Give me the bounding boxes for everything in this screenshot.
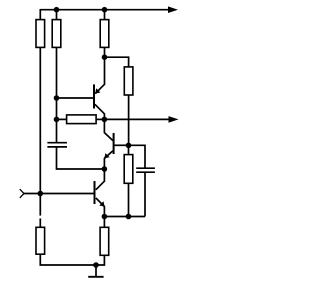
wire Q3 emitter — [96, 198, 105, 217]
node 57 — [102, 54, 108, 60]
resistor R6 — [124, 155, 133, 184]
transistor Q1 emitter arrow — [95, 88, 100, 93]
wire R7 bottom lead — [96, 255, 104, 265]
wire input to node — [24, 193, 40, 195]
node lower rail right — [126, 214, 132, 220]
arrow top rail — [168, 6, 178, 13]
wire Q3 base — [40, 193, 93, 195]
wire node to C2 — [129, 145, 146, 167]
wire R3 bottom lead — [104, 47, 106, 57]
wire R7 top lead — [103, 217, 105, 228]
arrow output — [169, 116, 179, 123]
wire node57 to R4 — [105, 57, 129, 67]
input terminal Y — [20, 189, 24, 198]
resistor R3 — [100, 20, 109, 48]
transistor Q2 bar — [113, 133, 115, 154]
wire R6 bottom lead — [40, 254, 96, 265]
resistor R2 — [52, 20, 61, 48]
wire Q3 collector — [96, 169, 105, 190]
resistor R1 — [36, 20, 45, 48]
capacitor C1 — [47, 143, 67, 147]
wire C1 bottom lead — [57, 147, 105, 169]
wire R6 top lead upper segment — [39, 194, 41, 216]
ground — [88, 276, 103, 278]
wire Q2 base — [114, 144, 128, 146]
wire Q1 base — [57, 97, 94, 99]
wire mid rail right lead — [96, 118, 104, 120]
wire R5 top lead — [128, 145, 130, 154]
wire R1 top lead — [39, 9, 41, 20]
node mid rail left — [54, 117, 60, 123]
wire Q1 emitter lead — [95, 57, 104, 93]
resistor R8 — [100, 227, 109, 255]
wire top rail — [40, 9, 169, 11]
node lower rail left — [102, 214, 108, 220]
wire mid rail left lead — [57, 118, 67, 120]
wire Q2 emitter — [104, 151, 112, 169]
wire R3 top lead — [104, 10, 106, 20]
node Q1 base — [54, 95, 60, 101]
wire R1 bottom lead down to input node — [39, 47, 41, 193]
transistor Q1 bar — [93, 84, 95, 108]
resistor R4 — [124, 67, 133, 95]
node mid rail right — [102, 117, 108, 123]
wire R5 bottom lead — [128, 183, 130, 216]
wire C2 bottom lead — [144, 172, 146, 216]
transistor Q2 emitter arrow — [104, 153, 109, 158]
node ground — [93, 262, 99, 268]
wire R2 top lead — [56, 10, 58, 20]
wire R6 top lead lower segment — [39, 218, 41, 227]
transistor Q3 emitter arrow — [99, 201, 104, 206]
wire R4 bottom lead to node at Q2 base — [128, 95, 130, 145]
node Q2 base — [126, 143, 132, 149]
resistor R7 — [36, 227, 45, 254]
wire Q1 collector — [95, 104, 105, 119]
wire output — [104, 118, 169, 120]
node Q2 emitter — [102, 166, 108, 172]
node top rail R2 — [54, 7, 60, 13]
capacitor C2 — [136, 168, 155, 172]
wire R2 bottom lead down to C1 — [56, 47, 58, 142]
transistor Q3 bar — [94, 181, 96, 204]
wire Q2 collector — [104, 119, 113, 140]
node top rail R3 — [102, 7, 108, 13]
resistor R5 horizontal — [67, 115, 97, 124]
wire ground stem — [95, 265, 97, 276]
node input — [38, 191, 44, 197]
wire lower rail — [104, 216, 145, 218]
